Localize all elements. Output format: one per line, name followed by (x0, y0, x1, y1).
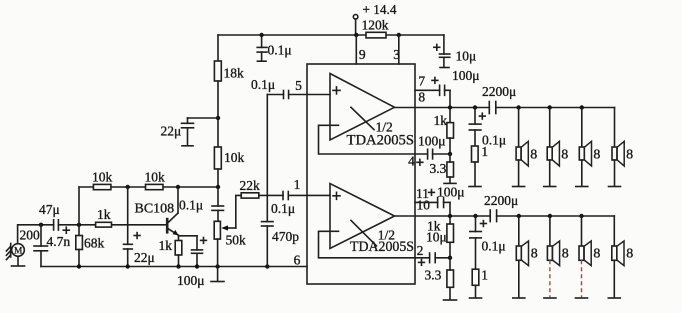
node rail 68k (77, 264, 81, 268)
capacitor 0.1u supply decoupling (257, 35, 291, 61)
resistor 1k feedback ch1 (434, 108, 454, 155)
svg-text:8: 8 (531, 247, 538, 262)
ground zobel ch1 (469, 186, 481, 188)
pin 11 wire (415, 201, 438, 203)
svg-text:8: 8 (418, 90, 425, 105)
svg-text:100μ: 100μ (437, 185, 465, 200)
label + polarity pin7 cap (432, 78, 438, 84)
svg-text:+ 14.4: + 14.4 (363, 2, 397, 17)
svg-text:50k: 50k (226, 233, 247, 248)
svg-text:1k: 1k (97, 207, 111, 222)
speaker LS8 8 ohm (612, 216, 633, 297)
microphone MIC 200 ohm (6, 244, 24, 260)
speaker LS1 8 ohm (516, 108, 537, 186)
label + polarity pin2 cap (419, 260, 425, 266)
resistor 68k (76, 236, 105, 267)
svg-text:4.7n: 4.7n (47, 234, 71, 249)
capacitor 47u (39, 202, 60, 230)
svg-text:47μ: 47μ (39, 202, 60, 217)
capacitor 22u supply filter (161, 118, 219, 146)
svg-text:8: 8 (626, 247, 633, 262)
node output1 junction (448, 105, 452, 109)
svg-text:2200μ: 2200μ (482, 84, 516, 99)
svg-text:6: 6 (294, 253, 301, 268)
op-amp U1b triangle (330, 184, 414, 255)
label + polarity 22u (134, 233, 140, 239)
svg-text:18k: 18k (224, 66, 245, 81)
wire left riser (78, 187, 80, 236)
ground speaker LS3 (576, 186, 588, 188)
node speaker2 ch2 (548, 214, 552, 218)
svg-text:22k: 22k (240, 178, 261, 193)
pin 7 wire (415, 89, 440, 91)
capacitor 100u pin4 feedback (418, 134, 450, 159)
svg-text:TDA2005S: TDA2005S (347, 133, 415, 149)
wire 18k column top (217, 35, 219, 61)
speaker LS4 8 ohm (612, 108, 633, 186)
op-amp IC U1 TDA2005S package box (307, 64, 415, 284)
label + polarity 2200u ch2 (481, 221, 487, 227)
svg-text:100μ: 100μ (177, 273, 205, 288)
node rail 22u (126, 264, 130, 268)
ground mic (12, 256, 25, 266)
pin 9 wire (355, 35, 357, 64)
resistor 10k second (145, 170, 166, 190)
svg-text:7: 7 (418, 73, 425, 88)
wire output channel 1 pin 8 (395, 107, 490, 109)
ground speaker LS8 (608, 297, 620, 299)
label + polarity 47u (63, 227, 69, 233)
svg-text:22μ: 22μ (161, 124, 182, 139)
svg-text:470p: 470p (272, 229, 299, 244)
svg-text:0.1μ: 0.1μ (251, 77, 275, 92)
wire vertical link to pin5 branch (266, 95, 268, 196)
svg-text:1k: 1k (427, 218, 441, 233)
svg-text:1k: 1k (159, 238, 173, 253)
ground speaker LS1 (513, 186, 525, 188)
svg-text:10k: 10k (92, 170, 113, 185)
wire mic top riser (18, 225, 54, 244)
ground speaker LS2 (544, 186, 556, 188)
svg-text:22μ: 22μ (134, 250, 155, 265)
node collector wire junction (216, 185, 220, 189)
capacitor 0.1u zobel ch1 (469, 108, 506, 148)
svg-text:0.1μ: 0.1μ (482, 239, 506, 254)
svg-text:100μ: 100μ (452, 68, 480, 83)
wire output channel 2 pin 10 (395, 215, 491, 217)
capacitor 100u emitter bypass (177, 236, 205, 288)
label + polarity 2200u ch1 (479, 113, 485, 119)
ground 3.3 ch1 (444, 182, 456, 184)
svg-text:2: 2 (417, 243, 424, 258)
capacitor 0.1u pin5 input (251, 77, 330, 99)
resistor 1 zobel ch2 (472, 268, 488, 298)
wire bottom ground rail (41, 266, 307, 268)
resistor 3.3 ch1 (430, 154, 454, 183)
node rail 1k emitter (176, 264, 180, 268)
ground speaker LS4 (609, 186, 621, 188)
node speaker3 ch1 (580, 105, 584, 109)
svg-text:0.1μ: 0.1μ (179, 198, 203, 213)
ground speaker LS6 (544, 297, 556, 299)
node zobel2 junction (473, 214, 477, 218)
capacitor 22u bias decoupling (124, 187, 155, 267)
svg-text:68k: 68k (84, 236, 105, 251)
capacitor 100u pin11 bootstrap (437, 185, 465, 217)
svg-text:100μ: 100μ (418, 134, 446, 149)
svg-text:1: 1 (294, 177, 301, 192)
svg-text:0.1μ: 0.1μ (271, 201, 295, 216)
capacitor 100u pin7 bootstrap (440, 68, 480, 108)
svg-text:120k: 120k (362, 17, 389, 32)
node rail 470p (265, 264, 269, 268)
speaker LS7 8 ohm (579, 216, 600, 297)
capacitor 10u pin2 feedback (426, 230, 450, 263)
resistor 1k base (96, 207, 112, 227)
svg-text:8: 8 (530, 148, 537, 163)
svg-text:4: 4 (408, 154, 415, 169)
wire top supply rail (218, 34, 444, 36)
speaker LS2 8 ohm (547, 108, 568, 186)
potentiometer 50k (214, 221, 246, 266)
capacitor 470p (262, 195, 300, 266)
capacitor 10u supply (440, 35, 477, 68)
svg-text:10k: 10k (145, 170, 166, 185)
node collector junction (176, 185, 180, 189)
pin 3 wire (398, 35, 400, 64)
node speaker2 ch1 (548, 105, 552, 109)
ground symbol main (211, 267, 224, 282)
node 120k right junction (397, 33, 401, 37)
transistor Q1 BC108 (135, 187, 179, 235)
node feedback ch2 (448, 256, 452, 260)
svg-text:8: 8 (593, 148, 600, 163)
resistor 1k emitter (159, 235, 182, 266)
ground zobel ch2 (470, 297, 482, 299)
wire top bias rail y187 (79, 186, 218, 188)
wire 47u to base node (58, 224, 166, 226)
capacitor 4.7n (34, 225, 70, 267)
svg-text:3.3: 3.3 (425, 268, 442, 283)
wire wiper riser to 22k (236, 195, 241, 228)
svg-text:1: 1 (481, 144, 488, 159)
svg-text:8: 8 (593, 247, 600, 262)
label + polarity pin4 cap (417, 159, 423, 165)
svg-text:11: 11 (416, 186, 429, 201)
node rail pot (215, 264, 219, 268)
node input junction (39, 223, 43, 227)
speaker LS3 8 ohm (579, 108, 600, 186)
ground 3.3 ch2 (444, 299, 457, 301)
node output2 junction (448, 214, 452, 218)
supply terminal +14.4 (353, 2, 396, 35)
ground speaker LS5 (513, 297, 525, 299)
resistor 1k feedback ch2 (427, 216, 454, 258)
node zobel1 junction (473, 105, 477, 109)
node speaker3 ch2 (579, 214, 583, 218)
svg-text:200: 200 (20, 228, 41, 243)
svg-text:10k: 10k (224, 150, 245, 165)
node B junction (126, 185, 130, 189)
svg-text:1: 1 (481, 268, 488, 283)
svg-text:8: 8 (562, 247, 569, 262)
resistor 3.3 ch2 (425, 258, 454, 300)
svg-text:M: M (14, 247, 23, 257)
speaker LS6 8 ohm (547, 216, 568, 297)
svg-text:2200μ: 2200μ (484, 193, 518, 208)
svg-text:8: 8 (561, 148, 568, 163)
ground speaker LS7 (576, 297, 588, 299)
speaker LS5 8 ohm (516, 216, 537, 297)
svg-text:3.3: 3.3 (430, 161, 447, 176)
node top rail 0.1u (259, 33, 263, 37)
svg-text:9: 9 (359, 47, 366, 62)
svg-text:1k: 1k (434, 113, 448, 128)
resistor 18k (214, 61, 244, 147)
svg-text:8: 8 (626, 148, 633, 163)
capacitor 2200u output ch1 (482, 84, 615, 114)
node supply junction (354, 33, 358, 37)
node feedback ch1 (448, 152, 452, 156)
svg-text:10μ: 10μ (456, 49, 477, 64)
op-amp U1a triangle (330, 74, 414, 149)
resistor 10k collector feed (214, 147, 244, 187)
label + polarity pin11 cap (429, 190, 435, 196)
capacitor 0.1u pin1 input (271, 192, 330, 217)
node speaker1 ch2 (517, 214, 521, 218)
resistor 22k (240, 178, 284, 198)
svg-text:TDA2005S: TDA2005S (350, 239, 414, 255)
capacitor 2200u output ch2 (484, 193, 614, 222)
svg-text:BC108: BC108 (135, 202, 175, 217)
node rail 100u (195, 264, 199, 268)
resistor 10k first (92, 170, 113, 190)
capacitor 0.1u zobel ch2 (470, 216, 506, 269)
capacitor 0.1u coupling to pot (179, 187, 224, 221)
svg-text:3: 3 (393, 47, 400, 62)
svg-text:5: 5 (295, 78, 302, 93)
wire U1b feedback loop to pin 2 (319, 231, 430, 257)
node speaker1 ch1 (516, 105, 520, 109)
node base divider junction (77, 223, 81, 227)
resistor 120k (362, 17, 389, 38)
node filtered supply (216, 116, 220, 120)
label + polarity 100u emitter (201, 238, 207, 244)
wire U1a feedback loop to pin 4 (319, 125, 428, 154)
label + polarity 10u (434, 44, 440, 50)
resistor 1 zobel ch1 (472, 144, 489, 186)
svg-text:0.1μ: 0.1μ (268, 43, 292, 58)
